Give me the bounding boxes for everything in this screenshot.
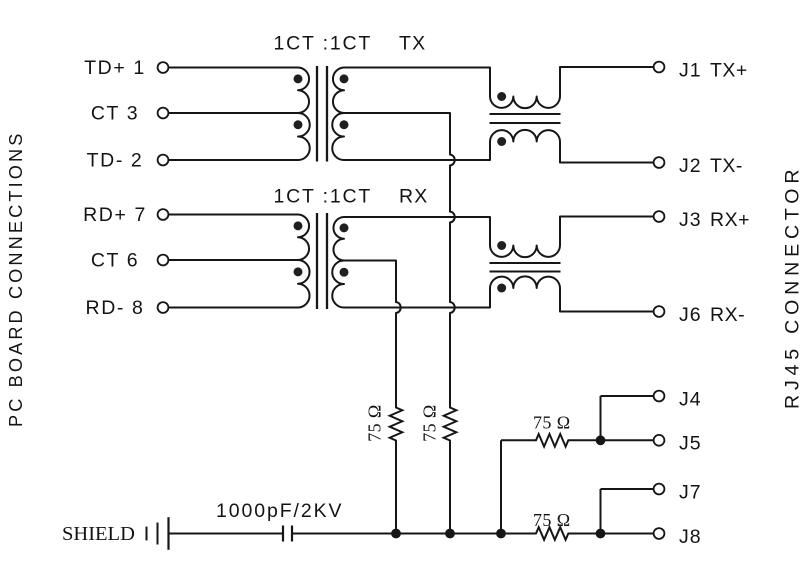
svg-text:J4: J4	[679, 388, 702, 410]
transformer T1 primary winding	[298, 68, 310, 161]
svg-text:75 Ω: 75 Ω	[420, 404, 440, 441]
label R2 75 ohm	[420, 404, 440, 441]
choke L1 bottom winding polarity dot	[497, 137, 506, 146]
wire TD- pin 2 to transformer	[168, 159, 298, 161]
svg-text:75 Ω: 75 Ω	[365, 404, 385, 441]
wire R3 to J5	[568, 439, 653, 441]
svg-text:J8: J8	[679, 526, 702, 548]
wire CT pin 3 to transformer	[168, 112, 298, 114]
wire shield to capacitor C1	[169, 533, 284, 535]
svg-text:CT 6: CT 6	[91, 250, 139, 272]
wire J4 branch to J4	[601, 395, 654, 397]
shield terminal marks	[147, 517, 169, 550]
transformer T2 primary polarity dot upper	[294, 221, 303, 230]
wire J5 branch to R3	[501, 439, 536, 441]
transformer T1 secondary winding	[332, 68, 344, 161]
svg-text:TX-: TX-	[710, 155, 743, 177]
svg-text:TD+ 1: TD+ 1	[84, 57, 146, 79]
transformer T1 primary polarity dot upper	[294, 74, 303, 83]
transformer T2 secondary polarity dot lower	[340, 268, 349, 277]
terminal CT pin 3	[91, 103, 169, 125]
choke L1 top winding	[490, 67, 560, 108]
svg-text:RJ45 CONNECTOR: RJ45 CONNECTOR	[781, 165, 803, 409]
junction dot bus at R1	[391, 529, 401, 539]
wire R1 to ground bus	[395, 441, 397, 534]
terminal RD- pin 8	[86, 297, 169, 319]
junction dot bus at J7 branch	[596, 529, 606, 539]
choke L2 bottom winding	[490, 276, 560, 311]
connector pin J7	[654, 481, 702, 503]
connector pin J6	[654, 304, 745, 326]
terminal CT pin 6	[91, 250, 169, 272]
choke L2 top winding polarity dot	[497, 241, 506, 250]
choke L1 top winding polarity dot	[497, 92, 506, 101]
svg-text:1CT :1CT: 1CT :1CT	[274, 33, 373, 55]
wire T2 secondary bottom to choke L2	[344, 307, 490, 309]
label R1 75 ohm	[365, 404, 385, 441]
svg-text:75 Ω: 75 Ω	[533, 510, 570, 530]
wire RD+ pin 7 to transformer	[168, 214, 298, 216]
wire T1 secondary center tap with crossover hops	[344, 113, 455, 408]
choke L2 top winding	[490, 217, 560, 258]
terminal RD+ pin 7	[83, 204, 168, 226]
left side title: PC BOARD CONNECTIONS	[6, 131, 26, 427]
wire R4 to J8	[568, 533, 653, 535]
connector pin J5	[654, 433, 702, 455]
wire T2 secondary center tap with crossover hop	[344, 261, 401, 408]
wire choke L2 to J3	[560, 216, 654, 218]
wire RD- pin 8 to transformer	[168, 307, 298, 309]
resistor R3 75 ohm body	[536, 434, 568, 447]
wire T2 secondary top to choke L2	[344, 216, 490, 218]
wire TD+ pin 1 to transformer	[168, 67, 298, 69]
choke L2 core	[490, 263, 561, 272]
svg-text:RX: RX	[399, 186, 429, 208]
label transformer T1 ratio 1CT :1CT TX	[274, 33, 427, 55]
junction dot bus at R2	[445, 529, 455, 539]
junction dot J5 line at J4 branch	[596, 435, 606, 445]
choke L1 core	[490, 114, 561, 123]
svg-text:75 Ω: 75 Ω	[533, 413, 570, 433]
svg-text:1000pF/2KV: 1000pF/2KV	[216, 500, 343, 522]
connector pin J1	[654, 59, 748, 81]
svg-text:RD+ 7: RD+ 7	[83, 204, 147, 226]
capacitor C1 plates	[283, 526, 292, 542]
resistor R2 75 ohm body	[444, 408, 457, 441]
transformer T1 secondary polarity dot lower	[340, 120, 349, 129]
junction dot bus at J5 branch	[496, 529, 506, 539]
connector pin J4	[654, 388, 702, 410]
wire J7 branch vertical	[600, 489, 602, 534]
wire choke L2 to J6	[560, 311, 654, 313]
svg-text:SHIELD: SHIELD	[62, 523, 135, 545]
wire choke L1 to J2	[560, 162, 654, 164]
svg-text:J1: J1	[679, 59, 702, 81]
resistor R4 75 ohm body	[536, 527, 568, 540]
transformer T2 secondary winding	[332, 217, 344, 308]
svg-text:1CT :1CT: 1CT :1CT	[274, 186, 373, 208]
connector pin J8	[654, 526, 702, 548]
svg-text:J2: J2	[679, 155, 702, 177]
wire J4 branch vertical	[600, 396, 602, 440]
svg-text:TD- 2: TD- 2	[87, 150, 144, 172]
svg-text:CT 3: CT 3	[91, 103, 139, 125]
connector pin J3	[654, 209, 750, 231]
svg-text:RX+: RX+	[710, 209, 750, 231]
right side title: RJ45 CONNECTOR	[781, 165, 803, 409]
choke L2 bottom winding polarity dot	[497, 284, 506, 293]
wire J5 branch vertical	[500, 440, 502, 533]
terminal TD+ pin 1	[84, 57, 168, 79]
wire CT pin 6 to transformer	[168, 259, 298, 261]
terminal TD- pin 2	[87, 150, 169, 172]
transformer T2 secondary polarity dot upper	[340, 223, 349, 232]
svg-text:J7: J7	[679, 481, 702, 503]
wire C1 to ground bus	[292, 533, 536, 535]
choke L1 bottom winding	[490, 130, 560, 163]
svg-text:RX-: RX-	[710, 304, 745, 326]
svg-text:J6: J6	[679, 304, 702, 326]
svg-text:J3: J3	[679, 209, 702, 231]
transformer T1 secondary polarity dot upper	[340, 74, 349, 83]
wire R2 to ground bus	[449, 441, 451, 534]
wire T1 secondary bottom to choke L1	[344, 159, 490, 161]
connector pin J2	[654, 155, 743, 177]
svg-text:J5: J5	[679, 433, 702, 455]
wire choke L1 to J1	[560, 66, 654, 68]
svg-text:TX+: TX+	[710, 59, 748, 81]
transformer T2 primary polarity dot lower	[294, 267, 303, 276]
transformer T1 primary polarity dot lower	[294, 120, 303, 129]
wire J7 branch to J7	[601, 488, 654, 490]
transformer T2 primary winding	[298, 215, 310, 308]
svg-text:TX: TX	[399, 33, 426, 55]
wire T1 secondary top to choke L1	[344, 67, 490, 69]
resistor R1 75 ohm body	[390, 408, 403, 441]
svg-text:RD- 8: RD- 8	[86, 297, 145, 319]
transformer T2 core	[317, 213, 327, 309]
label transformer T2 ratio 1CT :1CT RX	[274, 186, 429, 208]
transformer T1 core	[317, 66, 327, 162]
svg-text:PC BOARD CONNECTIONS: PC BOARD CONNECTIONS	[6, 131, 26, 427]
